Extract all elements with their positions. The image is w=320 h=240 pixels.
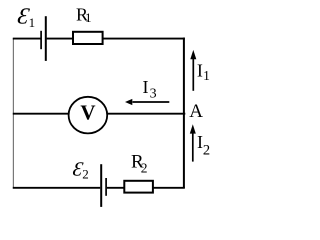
wire left vertical branch bbox=[12, 38, 14, 189]
svg-text:V: V bbox=[80, 101, 95, 125]
current arrow I3 bbox=[125, 99, 169, 105]
wire battery E1 to R1 bbox=[47, 38, 74, 40]
wire voltmeter to node A bbox=[107, 113, 185, 115]
svg-text:I: I bbox=[197, 61, 203, 81]
wire battery E2 to R2 bbox=[107, 187, 124, 189]
svg-text:I: I bbox=[143, 77, 149, 97]
label R1 bbox=[76, 5, 92, 26]
wire bottom-left segment bbox=[13, 187, 100, 189]
battery E2 long plate (positive) bbox=[100, 164, 102, 207]
label I1 bbox=[197, 61, 210, 83]
svg-text:2: 2 bbox=[141, 160, 148, 175]
battery E1 short plate (negative) bbox=[40, 31, 42, 49]
wire right vertical branch bbox=[183, 38, 185, 189]
resistor R1 body bbox=[73, 32, 103, 44]
svg-text:1: 1 bbox=[85, 10, 92, 25]
svg-text:2: 2 bbox=[203, 143, 210, 159]
wire R2 to bottom-right corner bbox=[153, 187, 185, 189]
label I2 bbox=[197, 132, 210, 159]
wire middle-left segment bbox=[13, 113, 69, 115]
svg-text:2: 2 bbox=[82, 166, 89, 181]
wire R1 to top-right corner bbox=[103, 38, 185, 40]
battery E2 short plate (negative) bbox=[105, 178, 107, 196]
current arrow I2 bbox=[190, 124, 196, 161]
svg-text:1: 1 bbox=[29, 15, 35, 30]
resistor R2 body bbox=[124, 181, 153, 193]
svg-text:1: 1 bbox=[203, 68, 210, 83]
label E1 (script EMF symbol) bbox=[16, 3, 35, 30]
label R2 bbox=[131, 152, 148, 176]
voltmeter U1 body bbox=[69, 97, 108, 134]
current arrow I1 bbox=[190, 50, 196, 91]
svg-text:3: 3 bbox=[150, 87, 157, 102]
label I3 bbox=[143, 77, 157, 102]
battery E1 long plate (positive) bbox=[45, 16, 47, 61]
wire top-left segment bbox=[13, 38, 41, 40]
label E2 (script EMF symbol) bbox=[71, 158, 88, 181]
svg-text:A: A bbox=[189, 101, 203, 122]
